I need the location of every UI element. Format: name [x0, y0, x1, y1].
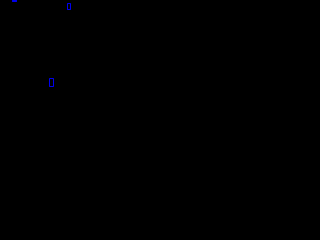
glyph box 2 (hollow blue rectangle, lower left-centre)	[49, 78, 53, 87]
glyph box 1 (hollow blue rectangle, top centre-left)	[67, 3, 71, 10]
blue bar (top-left, clipped by viewport top)	[12, 0, 17, 2]
